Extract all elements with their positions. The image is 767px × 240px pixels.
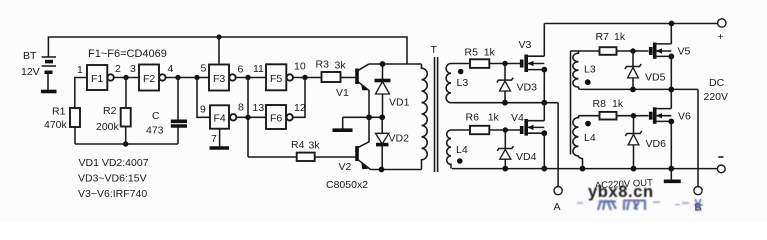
node VD6 anode on rail: [631, 166, 637, 172]
svg-text:7: 7: [211, 133, 217, 145]
wire V6 drain up to B bus: [670, 89, 672, 108]
capacitor C: [171, 121, 187, 126]
plus rail: [544, 23, 717, 25]
svg-text:L3: L3: [457, 77, 469, 89]
diode VD1: [375, 64, 391, 117]
svg-text:V6: V6: [678, 111, 691, 123]
node VD4 anode on rail: [502, 166, 508, 172]
inverter F5: [266, 64, 293, 90]
pin 4: [168, 63, 174, 75]
node V1 emitter: [366, 114, 372, 120]
svg-text:VD1: VD1: [389, 97, 410, 109]
node V6 source on rail: [668, 166, 674, 172]
resistor R4: [297, 153, 315, 161]
transistor V2: [357, 117, 371, 169]
label C: [152, 110, 160, 122]
mosfet V4: [522, 119, 545, 136]
svg-text:ybx8.cn: ybx8.cn: [588, 183, 654, 201]
pin 9: [200, 104, 206, 116]
wire C bottom to rail: [177, 127, 179, 145]
wire source bus of V5 row: [581, 88, 698, 90]
transistor V1: [357, 64, 369, 117]
node R5-VD3: [502, 61, 507, 66]
label 1k: [488, 112, 500, 124]
label R6: [466, 112, 480, 124]
svg-text:10: 10: [294, 61, 306, 73]
pin 12: [294, 102, 306, 114]
node R2 on bottom rail: [123, 141, 128, 146]
wire R8 to V6 gate: [617, 115, 649, 117]
svg-text:L4: L4: [456, 144, 468, 156]
resistor R7: [600, 47, 617, 55]
node V1 collector / VD1 cathode: [380, 61, 386, 67]
wire oscillator bottom rail: [75, 143, 178, 145]
svg-text:R4: R4: [291, 139, 305, 151]
svg-text:V2: V2: [339, 161, 352, 173]
svg-text:1k: 1k: [488, 112, 500, 124]
wire F2 out to F3 in: [166, 77, 209, 79]
label VD3: [517, 82, 538, 94]
wire F1 out to F2 in: [114, 77, 139, 79]
wire V3 drain to plus rail: [543, 24, 545, 57]
node V4 source-body: [541, 130, 547, 136]
label 3k: [309, 140, 321, 152]
inverter F4: [210, 105, 236, 128]
svg-text:1: 1: [77, 64, 83, 76]
wire V3 source down to node A bus: [543, 70, 545, 103]
svg-text:F4: F4: [214, 113, 226, 125]
wire V5 source down to B bus: [670, 56, 672, 89]
svg-text:V4: V4: [511, 112, 524, 124]
wire R7 to V5 gate: [617, 50, 649, 52]
svg-text:V1: V1: [336, 87, 349, 99]
label R4: [291, 139, 305, 151]
node V3 source-body: [541, 67, 547, 73]
mosfet V3: [522, 55, 545, 73]
resistor R8: [600, 112, 617, 120]
wire node to capacitor C: [177, 78, 179, 121]
svg-text:R7: R7: [596, 31, 610, 43]
polarity dot L4 second: [585, 121, 591, 127]
svg-text:473: 473: [146, 125, 164, 137]
terminal B: [694, 187, 702, 195]
svg-text:3k: 3k: [335, 60, 347, 72]
wire middle ground bus: [343, 116, 383, 118]
svg-text:C: C: [152, 110, 160, 122]
svg-text:3k: 3k: [309, 140, 321, 152]
wire V6 source to bottom rail: [670, 121, 672, 168]
label B: [695, 202, 702, 214]
svg-text:4: 4: [168, 63, 174, 75]
node F4 output: [245, 115, 250, 120]
svg-text:11: 11: [253, 63, 264, 75]
svg-text:R3: R3: [316, 59, 330, 71]
svg-text:1k: 1k: [614, 31, 626, 43]
note VD3~VD6:15V: [78, 173, 147, 185]
wire R6 to V4 gate: [489, 129, 521, 131]
pin 1: [77, 64, 83, 76]
note V3~V6:IRF740: [78, 188, 147, 200]
label V1: [336, 87, 349, 99]
resistor R2: [121, 108, 131, 127]
label 470k: [44, 119, 68, 131]
svg-text:V5: V5: [678, 46, 691, 58]
label F1~F6=CD4069: [88, 48, 167, 60]
mosfet V6: [651, 107, 672, 124]
svg-text:R8: R8: [593, 98, 607, 110]
wire F3 out to F5 in: [236, 77, 266, 79]
winding L3: [446, 64, 470, 103]
label R2: [103, 105, 117, 117]
label DC: [709, 77, 725, 89]
svg-text:12V: 12V: [21, 66, 40, 78]
label VD6: [646, 138, 667, 150]
svg-text:V3: V3: [519, 39, 532, 51]
node rail-to-F3 pin14: [216, 34, 221, 39]
mosfet V5: [651, 43, 672, 59]
winding L4: [447, 130, 470, 169]
resistor R6: [470, 126, 489, 134]
zener VD5: [625, 51, 641, 89]
node VD2 on bottom wire: [379, 167, 385, 173]
pin 13: [253, 102, 265, 114]
svg-text:V3~V6:IRF740: V3~V6:IRF740: [78, 188, 147, 200]
pin 8: [238, 102, 244, 114]
battery BT 12V: [42, 57, 56, 90]
svg-text:220V: 220V: [704, 91, 729, 103]
svg-text:R1: R1: [52, 106, 66, 118]
svg-text:VD6: VD6: [646, 138, 667, 150]
label 1k: [614, 31, 626, 43]
wire node A drop to terminal A: [557, 103, 559, 187]
node L4 second on rail: [580, 166, 586, 172]
wire F6 out up to node 10: [293, 78, 305, 118]
label C8050x2: [326, 179, 368, 191]
ground right: [664, 169, 681, 182]
wire F1 input to R1 top: [75, 78, 87, 109]
label 1k: [484, 47, 496, 59]
svg-text:470k: 470k: [44, 119, 68, 131]
svg-text:2: 2: [115, 63, 121, 75]
inverter F6: [266, 105, 293, 129]
inverter F1: [87, 65, 114, 90]
label L4: [456, 144, 468, 156]
svg-text:R5: R5: [465, 47, 479, 59]
svg-text:1k: 1k: [612, 98, 624, 110]
terminal plus: [718, 19, 726, 27]
svg-text:VD3: VD3: [517, 82, 538, 94]
label AC220V OUT: [595, 177, 654, 191]
svg-text:+: +: [718, 31, 724, 43]
label VD5: [645, 72, 666, 84]
svg-text:F3: F3: [213, 73, 225, 85]
label plus: [718, 31, 724, 43]
resistor R3: [322, 72, 341, 82]
watermark blue glyph 2: [624, 200, 645, 210]
wire pin14 drop to F3 top: [218, 37, 220, 65]
wire top supply rail from battery to transformer: [48, 37, 407, 64]
wire R1 bottom: [74, 127, 76, 144]
watermark blue glyph 1: [598, 200, 616, 210]
pin 2: [115, 63, 121, 75]
svg-text:8: 8: [238, 102, 244, 114]
svg-text:F1~F6=CD4069: F1~F6=CD4069: [88, 48, 167, 60]
svg-text:R6: R6: [466, 112, 480, 124]
label R7: [596, 31, 610, 43]
svg-text:F2: F2: [143, 73, 155, 85]
label VD1: [389, 97, 410, 109]
zener VD6: [625, 116, 641, 169]
svg-text:VD2: VD2: [389, 133, 410, 145]
node V3-V4 midpoint on bus: [541, 100, 547, 106]
wire R5 to V3 gate: [489, 63, 521, 65]
svg-text:200k: 200k: [96, 121, 120, 133]
wire V4 drain up to node A bus: [543, 103, 545, 121]
svg-text:1k: 1k: [484, 47, 496, 59]
node F3 output: [245, 75, 250, 80]
ground middle: [333, 117, 353, 130]
svg-text:A: A: [554, 201, 561, 213]
svg-text:6: 6: [238, 64, 244, 76]
wire R3 to V1 base: [341, 77, 357, 79]
wire V2 emitter to transformer bottom: [371, 169, 422, 171]
node R6-VD4: [503, 127, 508, 132]
label BT: [23, 50, 37, 62]
polarity dot L3: [458, 69, 464, 75]
polarity dot L4: [457, 158, 463, 164]
node F2 output: [175, 75, 180, 80]
label L4 second: [584, 132, 596, 144]
svg-text:R2: R2: [103, 105, 117, 117]
label V4: [511, 112, 524, 124]
pin 5: [201, 63, 207, 75]
node VD1-VD2 junction: [379, 114, 385, 120]
label R8: [593, 98, 607, 110]
wire V4 source to bottom rail: [543, 133, 545, 168]
node V5 drain on plus rail: [669, 21, 675, 27]
node V4 source on rail: [541, 166, 547, 172]
wire L3p top feed vertical: [570, 51, 572, 155]
transformer T core: [435, 57, 438, 172]
wire R4 to V2 base: [315, 156, 356, 158]
node VD3 anode on bus: [502, 100, 508, 106]
label 3k: [335, 60, 347, 72]
pin 10: [294, 61, 306, 73]
wire F4 pin7 to ground: [219, 129, 221, 147]
zener VD3: [497, 64, 513, 103]
label R1: [52, 106, 66, 118]
svg-text:3: 3: [130, 63, 136, 75]
zener VD4: [497, 130, 513, 169]
watermark blue dashes: [577, 201, 689, 205]
label minus: [718, 156, 723, 158]
node VD5 anode on bus: [630, 87, 636, 93]
svg-text:T: T: [431, 44, 438, 56]
svg-text:F6: F6: [270, 113, 282, 125]
wire node to R2: [125, 78, 127, 109]
polarity dot L3 second: [585, 79, 591, 85]
wire F5 out to R3: [293, 77, 322, 79]
wire node6 down through node8 to R4 row: [247, 78, 249, 158]
label V6: [678, 111, 691, 123]
svg-text:BT: BT: [23, 50, 37, 62]
terminal minus: [717, 165, 725, 173]
label 473: [146, 125, 164, 137]
ground below F4: [210, 146, 230, 150]
label 220V: [704, 91, 729, 103]
transformer T primary winding: [422, 64, 428, 170]
label 12V: [21, 66, 40, 78]
winding L3 second: [571, 51, 600, 89]
terminal A: [554, 187, 562, 195]
resistor R1: [70, 108, 80, 127]
inverter F2: [139, 65, 166, 91]
label 200k: [96, 121, 120, 133]
label VD2: [389, 133, 410, 145]
svg-text:DC: DC: [709, 77, 725, 89]
node R7-VD5: [630, 48, 635, 53]
pin 3: [130, 63, 136, 75]
svg-text:5: 5: [201, 63, 207, 75]
svg-text:9: 9: [200, 104, 206, 116]
wire F4 out to F6 in: [236, 116, 266, 118]
diode VD2: [376, 117, 389, 169]
ground below battery: [41, 90, 57, 94]
label L3: [457, 77, 469, 89]
svg-text:L3: L3: [584, 64, 596, 76]
label V2: [339, 161, 352, 173]
bottom rail right section: [452, 168, 717, 170]
node V5 source-body: [668, 54, 674, 60]
label V5: [678, 46, 691, 58]
winding L4 second: [573, 116, 600, 169]
pin 11: [253, 63, 264, 75]
node V6 source-body: [668, 119, 674, 125]
watermark blue glyph over B: [694, 199, 703, 211]
wire B bus corner down to terminal B: [697, 89, 699, 186]
node R8-VD6: [631, 113, 636, 118]
label VD4: [516, 151, 537, 163]
pin 6: [238, 64, 244, 76]
svg-text:L4: L4: [584, 132, 596, 144]
wire node8 row to R4: [248, 156, 297, 158]
label R3: [316, 59, 330, 71]
svg-text:VD3~VD6:15V: VD3~VD6:15V: [78, 173, 147, 185]
label R5: [465, 47, 479, 59]
svg-text:13: 13: [253, 102, 265, 114]
svg-text:C8050x2: C8050x2: [326, 179, 368, 191]
wire R2 bottom: [125, 127, 127, 145]
node F5 output: [302, 75, 307, 80]
node F1 output: [123, 75, 128, 80]
pin 7: [211, 133, 217, 145]
node before F3: [194, 75, 199, 80]
label T: [431, 44, 438, 56]
svg-text:VD1 VD2:4007: VD1 VD2:4007: [79, 157, 149, 169]
node V5 source on B bus: [668, 87, 674, 93]
svg-text:VD4: VD4: [516, 151, 537, 163]
wire V1 collector to transformer top: [369, 63, 422, 65]
wire L3 bottom bus to A drop: [451, 102, 558, 104]
label L3 second: [584, 64, 596, 76]
wire V5 drain to plus rail: [670, 24, 672, 44]
note VD1 VD2:4007: [79, 157, 149, 169]
svg-text:12: 12: [294, 102, 306, 114]
resistor R5: [470, 59, 489, 68]
label 1k: [612, 98, 624, 110]
watermark ybx8.cn: [588, 183, 654, 201]
svg-text:VD5: VD5: [645, 72, 666, 84]
inverter F3: [209, 65, 236, 91]
wire node down to F4 input: [197, 78, 210, 118]
label A: [554, 201, 561, 213]
label V3: [519, 39, 532, 51]
svg-text:F5: F5: [270, 73, 282, 85]
svg-text:F1: F1: [91, 73, 103, 85]
